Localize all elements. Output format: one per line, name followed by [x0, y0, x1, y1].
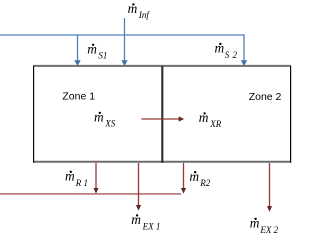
svg-text:m: m — [65, 168, 75, 183]
svg-text:m: m — [128, 1, 138, 16]
svg-text:XR: XR — [209, 119, 221, 129]
zone box top edge — [33, 65, 291, 67]
svg-text:R2: R2 — [199, 178, 210, 188]
svg-text:XS: XS — [104, 119, 115, 129]
svg-text:m: m — [199, 110, 209, 125]
svg-text:Inf: Inf — [138, 10, 150, 20]
arrow m_XS to m_XR — [142, 118, 180, 120]
svg-text:Zone 2: Zone 2 — [249, 91, 282, 103]
arrow m_EX2 — [269, 163, 271, 207]
svg-text:m: m — [131, 212, 141, 227]
svg-text:S1: S1 — [98, 51, 107, 61]
wire: red return duct line — [0, 193, 181, 195]
zone divider wall — [161, 66, 163, 163]
arrow m_R2 — [183, 163, 185, 188]
svg-text:R1: R1 — [75, 178, 90, 188]
wire: blue supply duct line — [0, 34, 245, 36]
svg-text:EX 2: EX 2 — [259, 225, 278, 235]
wire: supply duct drop to zone 2 — [243, 34, 245, 60]
arrow m_R1 — [95, 163, 97, 188]
svg-text:m: m — [94, 110, 104, 125]
arrow m_EX1 — [138, 163, 140, 205]
svg-text:S2: S2 — [225, 50, 240, 60]
arrow m_S2 head — [241, 60, 247, 66]
svg-text:m: m — [189, 169, 199, 184]
arrow m_S1 — [77, 35, 79, 61]
svg-text:m: m — [87, 41, 97, 56]
svg-text:m: m — [250, 216, 260, 231]
zone box right edge — [290, 66, 292, 163]
arrow m_Inf — [124, 18, 126, 61]
zone box left edge — [33, 66, 35, 163]
svg-text:EX 1: EX 1 — [142, 222, 161, 232]
svg-text:Zone 1: Zone 1 — [62, 91, 95, 103]
svg-text:m: m — [215, 41, 225, 56]
zone box bottom edge — [33, 161, 291, 163]
